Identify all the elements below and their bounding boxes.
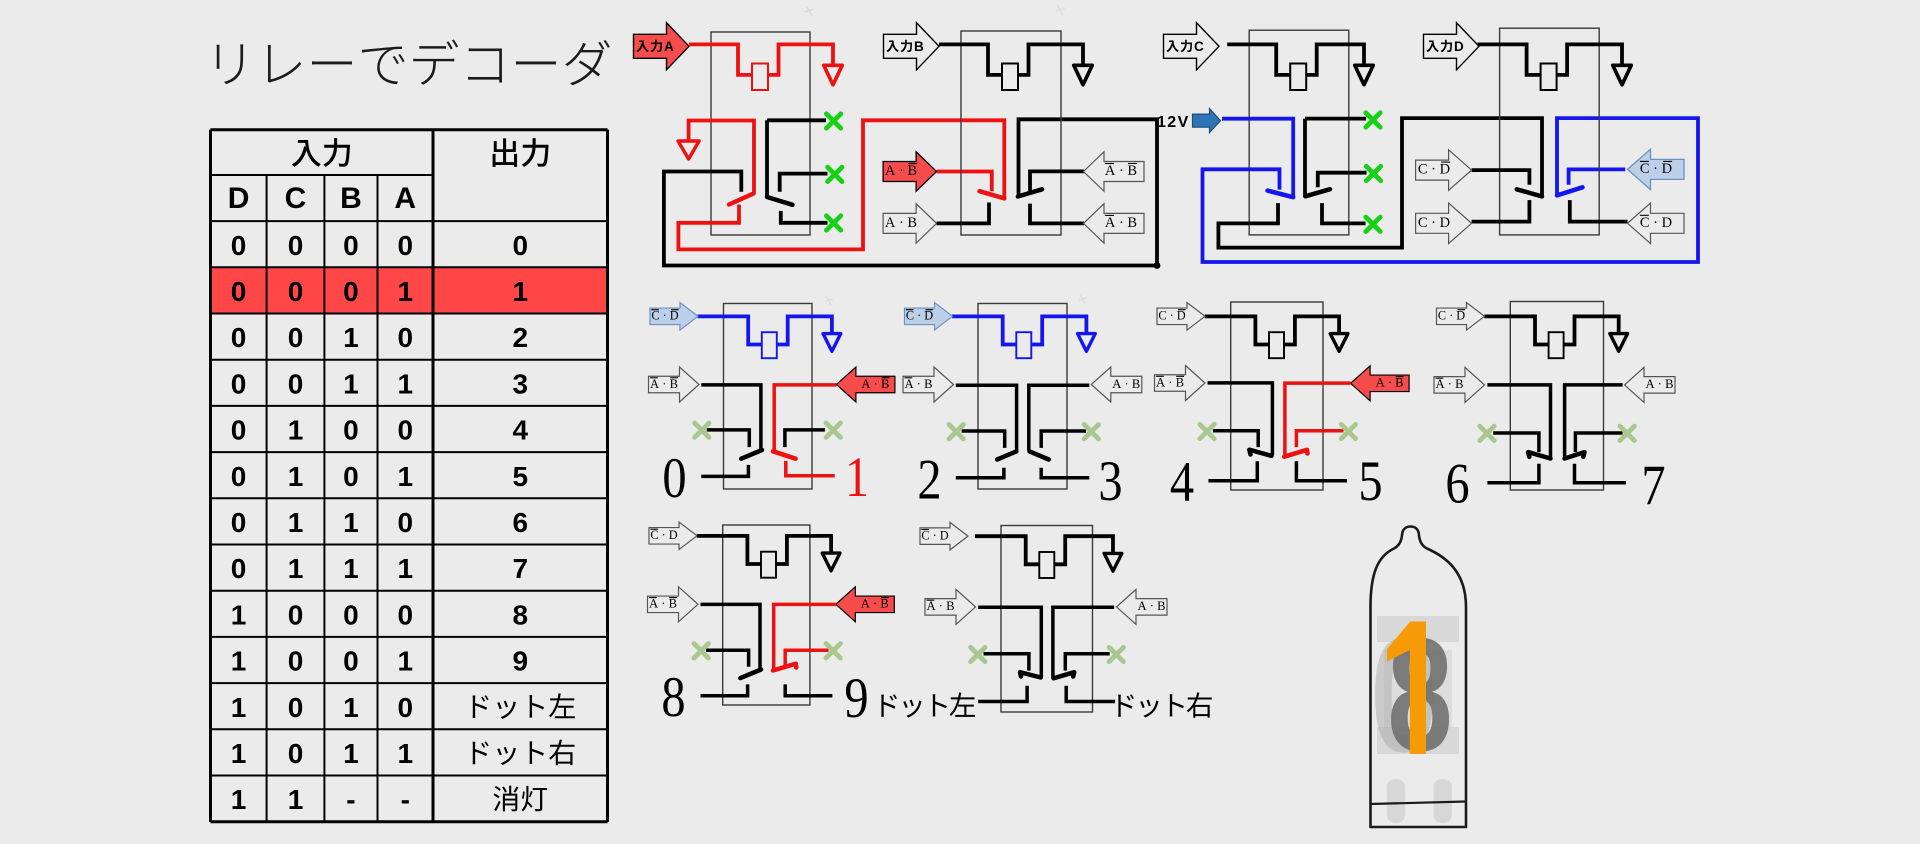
svg-text:1: 1: [343, 692, 359, 723]
signal arrow A·B̄ into K45 (active, red): [1351, 366, 1410, 401]
svg-text:1: 1: [231, 692, 247, 723]
nixie ghost digit blocks: [1377, 616, 1459, 642]
output digit 6: [1445, 453, 1469, 515]
svg-text:7: 7: [1641, 454, 1665, 516]
wire: C̄·D output to K_D contact 2 NO: [1570, 200, 1628, 222]
svg-text:0: 0: [288, 692, 304, 723]
node: no-connect X (K_A top): [826, 114, 840, 128]
faint mark above K_A: [805, 6, 814, 16]
relay K45 coil: [1205, 316, 1269, 344]
svg-text:0: 0: [288, 599, 304, 630]
relay K89 contact 2 NC terminal (red) to no-connect: [785, 650, 828, 665]
signal arrow C̄·D̄ (active, light blue): [1628, 149, 1685, 190]
relay K45 contact 2 arm (red, released to NC): [1284, 450, 1307, 457]
node: no-connect X (K_C mid): [1366, 166, 1380, 180]
svg-text:C: C: [285, 182, 307, 215]
signal arrow Ā·B̄ into K45: [1155, 366, 1206, 401]
nixie ghost digit 8: [1387, 604, 1452, 784]
relay K45 contact 1 arm: [1249, 450, 1271, 456]
node: no-connect X (K01 right): [826, 423, 840, 437]
svg-text:0: 0: [343, 599, 359, 630]
relay K01 contact 1 common wire: [701, 385, 761, 449]
svg-text:A: A: [664, 39, 674, 54]
svg-text:1: 1: [288, 784, 304, 815]
svg-text:0: 0: [397, 415, 413, 446]
svg-text:0: 0: [397, 322, 413, 353]
output digit 4: [1170, 452, 1194, 514]
signal arrow Ā·B̄: [1084, 152, 1145, 192]
svg-text:A · B: A · B: [1156, 375, 1184, 389]
svg-text:0: 0: [288, 738, 304, 769]
faint mark above K_B: [1056, 5, 1065, 15]
svg-text:2: 2: [917, 449, 941, 511]
node: no-connect X (K23 right): [1084, 425, 1098, 439]
svg-text:3: 3: [512, 368, 528, 399]
output digit 8: [661, 666, 685, 728]
relay K89 contact 1 common wire: [701, 604, 761, 669]
svg-text:A · B: A · B: [1138, 599, 1166, 613]
wire: C̄·D̄ output wire (blue): [1569, 169, 1626, 184]
svg-text:A: A: [394, 182, 416, 215]
node: no-connect X (K_C top): [1366, 113, 1380, 127]
signal arrow C·D̄: [1416, 150, 1472, 191]
svg-text:0: 0: [231, 415, 247, 446]
relay K45 contact 1 common wire: [1208, 383, 1273, 456]
output digit 3: [1098, 450, 1122, 512]
svg-text:0: 0: [231, 230, 247, 261]
signal arrow Ā·B̄ into K89: [648, 587, 699, 622]
svg-text:A · B: A · B: [861, 597, 889, 611]
ground (red, left of K_A): [678, 141, 699, 159]
relay K45 contact 2 NO terminal to digit 5: [1296, 461, 1347, 481]
wire: A·B̄ output wire (red): [937, 172, 992, 192]
wire: K_A contact1 output to K_B common (red path A=1): [678, 120, 1004, 249]
wire: K_C contact2 NO terminal: [1322, 203, 1366, 223]
node: no-connect X (Kdot right): [1109, 647, 1123, 661]
relay K89 contact 2 NO terminal to digit 9: [785, 684, 832, 695]
relay K45 contact 1 NO terminal to digit 4: [1208, 461, 1257, 481]
relay K67 contact 2 common wire: [1565, 385, 1623, 458]
relay K_B contact 2 arm: [1018, 189, 1042, 196]
svg-text:C: C: [1194, 39, 1204, 54]
signal arrow Ā·B into K23: [903, 367, 954, 402]
output digit 0: [662, 447, 686, 509]
svg-text:A · B: A · B: [885, 215, 917, 231]
relay K23 contact 1 NO terminal to digit 2: [956, 468, 1004, 478]
svg-text:0: 0: [231, 276, 247, 307]
relay K67 contact 1 NC terminal: [1493, 433, 1539, 452]
node: no-connect X (K_C bottom): [1366, 217, 1380, 231]
relay Kdot contact 2 common wire: [1053, 607, 1114, 678]
coil arrow C·D̄: [1437, 303, 1485, 331]
svg-text:C · D: C · D: [1418, 215, 1450, 231]
svg-text:9: 9: [512, 646, 528, 677]
svg-text:1: 1: [343, 507, 359, 538]
relay K67 contact 2 NO terminal to digit 7: [1575, 464, 1627, 483]
svg-text:0: 0: [512, 230, 528, 261]
relay K89 contact 1 NO terminal to digit 8: [701, 684, 748, 695]
svg-text:0: 0: [231, 322, 247, 353]
node: no-connect X (K_A bottom): [826, 216, 840, 230]
svg-text:C · D: C · D: [1640, 161, 1672, 177]
svg-text:1: 1: [397, 646, 413, 677]
svg-text:A · B: A · B: [1436, 377, 1464, 391]
relay K67 contact 1 arm: [1528, 452, 1550, 458]
relay K_D contact 1 arm: [1517, 189, 1542, 196]
relay K01 contact 2 common wire (red): [774, 385, 836, 451]
node: no-connect X (K45 left): [1200, 424, 1214, 438]
coil arrow C̄·D̄ (active, light blue): [905, 303, 953, 331]
svg-text:A · B: A · B: [905, 377, 933, 391]
relay K23 contact 1 common wire: [956, 385, 1017, 450]
node: no-connect X (K45 right): [1341, 424, 1355, 438]
svg-text:B: B: [914, 39, 924, 54]
relay K_B coil: [939, 44, 1002, 75]
signal arrow C·D: [1416, 203, 1472, 244]
faint mark above K01: [825, 296, 833, 305]
input arrow 入力B: [884, 23, 940, 70]
relay K01 contact 2 NC terminal: [785, 430, 825, 447]
svg-text:A · B: A · B: [1105, 215, 1137, 231]
relay K_C contact 1 arm (blue, energized): [1268, 191, 1294, 198]
wire: K_A contact2 NO terminal: [781, 211, 828, 223]
svg-text:C · D: C · D: [1158, 309, 1185, 323]
nixie lit digit 1 (orange): [1387, 622, 1426, 755]
svg-text:0: 0: [343, 646, 359, 677]
svg-text:D: D: [228, 182, 250, 215]
svg-text:0: 0: [288, 230, 304, 261]
input arrow 入力C: [1164, 23, 1220, 70]
relay K_A coil (energized, red): [689, 44, 752, 75]
relay K67 coil: [1484, 316, 1548, 344]
svg-text:C · D: C · D: [1640, 215, 1672, 231]
relay Kdot contact 1 arm: [1020, 672, 1041, 677]
svg-text:-: -: [346, 784, 355, 815]
wire: K_A contact2 NC terminal: [780, 174, 828, 192]
relay K_B contact 1 arm (red): [980, 191, 1005, 198]
relay K45 body: [1231, 302, 1323, 490]
svg-text:0: 0: [288, 646, 304, 677]
table header 入力: [292, 140, 321, 167]
svg-text:0: 0: [397, 599, 413, 630]
svg-text:0: 0: [343, 415, 359, 446]
svg-text:8: 8: [512, 599, 528, 630]
svg-text:12V: 12V: [1157, 114, 1190, 131]
relay K45 contact 2 common wire (red): [1285, 383, 1351, 456]
relay K01 contact 1 arm (pulled): [741, 450, 762, 459]
svg-text:6: 6: [512, 507, 528, 538]
node: rail corner junction: [1154, 262, 1161, 269]
wire: C·D̄ output to K_D contact 1 NC: [1472, 170, 1530, 185]
relay K_D contact 2 arm (blue): [1557, 187, 1583, 195]
svg-text:C · D: C · D: [921, 528, 948, 542]
relay K23 contact 2 NC terminal: [1041, 431, 1086, 448]
svg-text:7: 7: [512, 553, 528, 584]
relay K_C contact 2 arm: [1305, 189, 1330, 196]
svg-text:1: 1: [343, 368, 359, 399]
relay K67 contact 2 arm: [1565, 452, 1585, 458]
svg-text:-: -: [401, 784, 410, 815]
output digit 9: [844, 667, 868, 729]
signal arrow A·B into Kdot: [1117, 589, 1168, 624]
svg-text:8: 8: [661, 666, 685, 728]
svg-text:A · B: A · B: [885, 163, 917, 179]
svg-text:A · B: A · B: [1376, 376, 1404, 390]
relay Kdot contact 2 arm: [1054, 672, 1075, 678]
svg-text:0: 0: [343, 276, 359, 307]
svg-text:C · D: C · D: [1438, 309, 1465, 323]
svg-text:A · B: A · B: [927, 599, 955, 613]
svg-text:A · B: A · B: [1646, 377, 1674, 391]
relay K01 coil (energized, blue): [698, 316, 762, 344]
svg-text:1: 1: [397, 553, 413, 584]
relay K67 contact 2 NC terminal: [1575, 433, 1622, 452]
svg-text:1: 1: [288, 415, 304, 446]
relay K01 contact 1 NC terminal: [707, 430, 750, 447]
svg-text:1: 1: [397, 368, 413, 399]
svg-text:0: 0: [343, 461, 359, 492]
relay K_A contact 2 common wire: [765, 120, 769, 197]
svg-text:2: 2: [512, 322, 528, 353]
svg-text:5: 5: [1358, 450, 1382, 512]
svg-text:A · B: A · B: [649, 597, 677, 611]
svg-text:0: 0: [231, 553, 247, 584]
svg-text:1: 1: [231, 646, 247, 677]
signal arrow A·B̄ into K01 (active, red): [836, 367, 895, 402]
wire: Ā·B̄ output to K_B contact 2 NC: [1030, 171, 1084, 191]
svg-text:B: B: [340, 182, 362, 215]
svg-text:1: 1: [231, 738, 247, 769]
faint mark above K23: [1079, 295, 1087, 304]
svg-text:A · B: A · B: [650, 377, 678, 391]
svg-text:D: D: [1454, 39, 1464, 54]
svg-text:4: 4: [1170, 452, 1194, 514]
svg-text:A · B: A · B: [861, 377, 889, 391]
svg-text:0: 0: [231, 461, 247, 492]
truth table heavy borders: [211, 130, 608, 822]
signal arrow Ā·B: [1084, 204, 1145, 244]
svg-text:1: 1: [231, 599, 247, 630]
signal arrow A·B̄ (active, red): [883, 152, 937, 192]
svg-text:0: 0: [343, 230, 359, 261]
svg-text:1: 1: [397, 461, 413, 492]
input arrow 入力A: [634, 23, 690, 70]
relay K23 contact 2 NO terminal to digit 3: [1041, 468, 1089, 478]
relay K67 contact 1 common wire: [1487, 385, 1550, 458]
svg-text:A · B: A · B: [1105, 163, 1137, 179]
svg-text:0: 0: [662, 447, 686, 509]
relay Kdot contact 2 NC terminal: [1065, 654, 1109, 671]
relay Kdot contact 1 common wire: [978, 607, 1041, 677]
svg-text:6: 6: [1445, 453, 1469, 515]
coil arrow C̄·D: [649, 522, 697, 550]
output digit 2: [917, 449, 941, 511]
svg-text:5: 5: [512, 461, 528, 492]
nixie tube base seam: [1371, 802, 1467, 805]
svg-text:0: 0: [288, 368, 304, 399]
nixie tube pins: [1387, 779, 1405, 823]
supply arrow 12V: [1193, 109, 1221, 133]
relay K89 contact 1 NC terminal: [706, 650, 749, 666]
relay K_C coil: [1227, 44, 1290, 75]
output digit 1 (lit, red): [845, 446, 869, 508]
relay K_C body: [1249, 30, 1349, 235]
node: no-connect X (K67 left): [1480, 426, 1494, 440]
relay K23 contact 1 NC terminal: [962, 431, 1005, 448]
signal arrow A·B: [883, 204, 937, 244]
relay K_D body: [1500, 28, 1600, 235]
relay K_B body: [961, 31, 1061, 235]
relay K45 contact 1 NC terminal: [1213, 431, 1258, 447]
wire: 12V return rail from K_A common loop to K_B common: [664, 119, 1157, 265]
node: no-connect X (Kdot left): [971, 647, 985, 661]
output label ドット右: [1118, 694, 1134, 716]
svg-text:1: 1: [288, 461, 304, 492]
wire: Ā·B output to K_B contact 2 NO: [1030, 204, 1084, 224]
input arrow 入力D: [1424, 23, 1480, 70]
truth table highlighted row 0001=1: [211, 267, 608, 313]
wire: K_C contact2 top to no-connect: [1305, 117, 1366, 121]
relay K23 contact 1 arm: [997, 451, 1016, 459]
relay K45 contact 2 NC terminal (red) to no-connect: [1296, 431, 1343, 447]
svg-text:0: 0: [288, 276, 304, 307]
coil arrow C̄·D: [920, 522, 968, 550]
relay K_D coil: [1478, 44, 1541, 75]
wire: C output rail from K_C to K_D common (black): [1218, 118, 1542, 248]
relay K89 coil: [697, 536, 761, 564]
svg-text:0: 0: [288, 322, 304, 353]
wire: C̄ output loop from K_C to K_D common (blue): [1203, 118, 1699, 262]
relay K01 contact 1 NO terminal to digit 0: [701, 465, 748, 477]
output digit 5: [1358, 450, 1382, 512]
svg-text:1: 1: [231, 784, 247, 815]
svg-text:0: 0: [397, 230, 413, 261]
relay K89 contact 1 arm: [740, 670, 761, 679]
relay Kdot body: [1001, 526, 1093, 713]
svg-text:1: 1: [343, 738, 359, 769]
relay Kdot contact 2 NO terminal to ドット右: [1066, 686, 1115, 702]
svg-text:0: 0: [397, 507, 413, 538]
relay K23 coil (energized, blue): [952, 316, 1016, 344]
node: no-connect X (K_A mid): [828, 167, 842, 181]
svg-text:1: 1: [845, 446, 869, 508]
svg-text:1: 1: [288, 507, 304, 538]
relay Kdot contact 1 NO terminal to ドット左: [978, 686, 1027, 702]
table header 出力: [493, 138, 517, 167]
svg-text:A · B: A · B: [1112, 377, 1140, 391]
svg-text:C · D: C · D: [651, 309, 678, 323]
svg-text:3: 3: [1098, 450, 1122, 512]
node: no-connect X (K23 left): [949, 425, 963, 439]
relay K67 contact 1 NO terminal to digit 6: [1487, 464, 1539, 483]
relay K_A common rail with ground (red): [689, 121, 754, 193]
relay K_B contact 1 NO terminal wire: [937, 203, 989, 224]
relay K_C contact 2 common wire: [1303, 119, 1307, 197]
svg-text:1: 1: [512, 276, 528, 307]
relay K67 body: [1510, 302, 1603, 491]
wire: K_A contact2 top to no-connect: [767, 118, 826, 122]
node: no-connect X (K67 right): [1620, 426, 1634, 440]
relay Kdot coil: [975, 536, 1039, 564]
node: no-connect X (K89 left): [694, 644, 708, 658]
nixie ghost digit 0: [1370, 605, 1438, 786]
svg-text:0: 0: [231, 368, 247, 399]
coil arrow C·D̄: [1157, 303, 1205, 331]
relay K01 body: [724, 304, 813, 490]
svg-text:9: 9: [844, 667, 868, 729]
wire: K_C contact2 NC terminal: [1318, 173, 1367, 188]
relay K89 contact 2 arm (red, released to NC): [773, 664, 796, 671]
relay K23 body: [978, 304, 1067, 490]
svg-text:C · D: C · D: [1418, 162, 1450, 178]
relay K23 contact 2 arm: [1030, 451, 1049, 459]
output label ドット左: [881, 694, 897, 716]
signal arrow Ā·B into K67: [1434, 367, 1485, 402]
relay K89 contact 2 common wire (red): [774, 604, 836, 670]
signal arrow A·B̄ into K89 (active, red): [836, 587, 895, 622]
relay Kdot contact 1 NC terminal: [984, 654, 1029, 671]
svg-text:1: 1: [397, 738, 413, 769]
truth table grid: [211, 130, 608, 822]
output digit 7: [1641, 454, 1665, 516]
wire: 12V feed to K_C common (blue): [1222, 119, 1293, 197]
svg-text:1: 1: [397, 276, 413, 307]
coil arrow C̄·D̄ (active, light blue): [650, 303, 698, 331]
svg-text:4: 4: [512, 415, 528, 446]
title リレーでデコーダ: [217, 44, 244, 84]
node: no-connect X (K01 left): [695, 423, 709, 437]
signal arrow A·B into K67: [1625, 367, 1676, 402]
node: no-connect X (K89 right): [826, 644, 840, 658]
svg-text:1: 1: [288, 553, 304, 584]
relay K_A body: [711, 32, 810, 235]
relay K89 body: [723, 525, 810, 705]
signal arrow Ā·B into Kdot: [925, 589, 976, 624]
signal arrow C̄·D: [1628, 203, 1685, 244]
relay K23 contact 2 common wire: [1029, 385, 1090, 450]
svg-text:1: 1: [343, 322, 359, 353]
wire: C·D output to K_D contact 1 NO: [1472, 200, 1530, 222]
relay K01 contact 2 arm (red, pulled): [773, 451, 796, 458]
relay K_A contact 1 arm (red, energized): [729, 194, 754, 205]
relay K_A contact 2 arm: [767, 197, 793, 205]
relay K01 contact 2 NO terminal to digit 1 (red): [786, 461, 835, 476]
svg-text:1: 1: [343, 553, 359, 584]
svg-text:C · D: C · D: [906, 309, 933, 323]
svg-text:C · D: C · D: [650, 528, 677, 542]
signal arrow Ā·B̄ into K01: [649, 367, 700, 402]
svg-text:0: 0: [397, 692, 413, 723]
nixie tube envelope: [1371, 527, 1467, 828]
signal arrow A·B into K23: [1091, 367, 1142, 402]
svg-text:0: 0: [231, 507, 247, 538]
